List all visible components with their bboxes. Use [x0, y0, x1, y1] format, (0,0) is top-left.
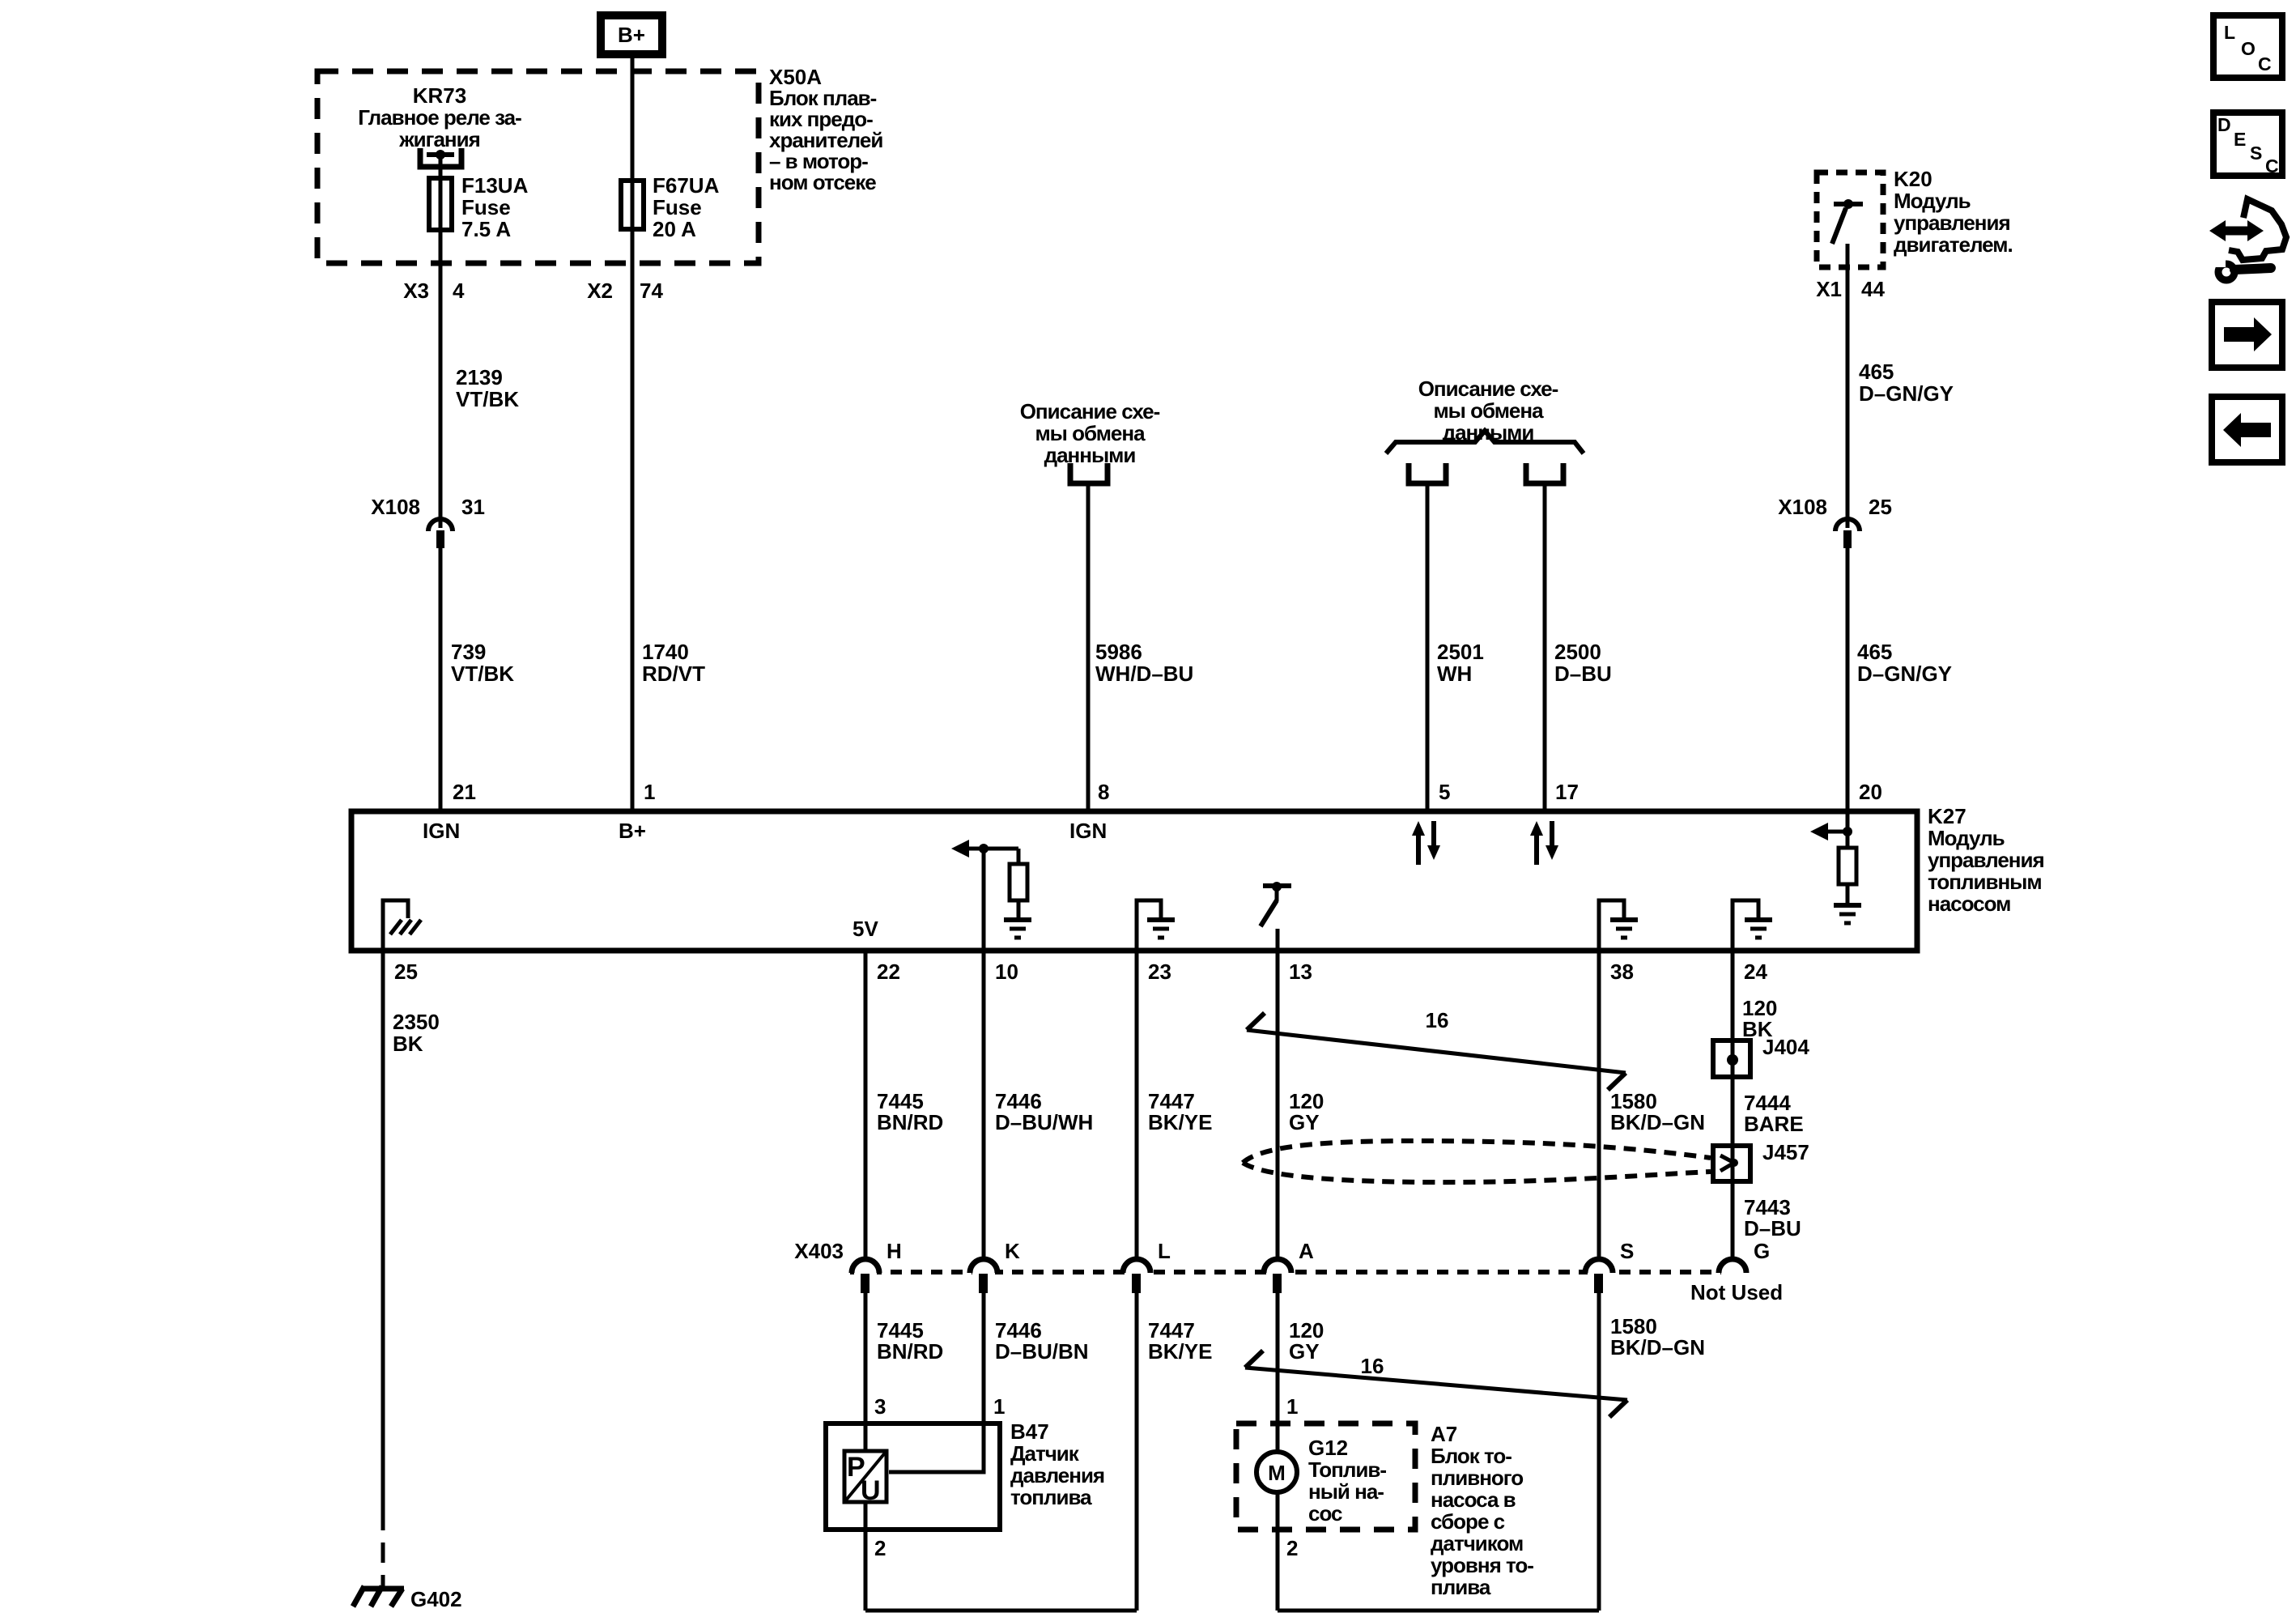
svg-text:S: S — [1620, 1239, 1634, 1263]
svg-text:F13UA: F13UA — [461, 173, 529, 198]
svg-text:16: 16 — [1426, 1008, 1449, 1032]
svg-text:25: 25 — [394, 960, 418, 984]
svg-text:GY: GY — [1289, 1339, 1320, 1364]
svg-text:мы обмена: мы обмена — [1035, 421, 1146, 445]
svg-text:уровня то-: уровня то- — [1431, 1553, 1533, 1577]
svg-text:465: 465 — [1857, 640, 1892, 664]
svg-text:BK/D–GN: BK/D–GN — [1610, 1110, 1705, 1134]
svg-text:1740: 1740 — [642, 640, 689, 664]
svg-text:данными: данными — [1044, 443, 1136, 467]
svg-text:X2: X2 — [587, 279, 613, 303]
svg-text:31: 31 — [461, 495, 485, 519]
svg-text:J404: J404 — [1762, 1035, 1809, 1059]
svg-text:Топлив-: Топлив- — [1308, 1457, 1386, 1482]
svg-text:44: 44 — [1861, 277, 1885, 301]
svg-text:давления: давления — [1010, 1463, 1104, 1487]
svg-text:сборе с: сборе с — [1431, 1509, 1505, 1534]
svg-text:O: O — [2241, 38, 2256, 59]
svg-text:J457: J457 — [1762, 1140, 1809, 1164]
svg-text:38: 38 — [1610, 960, 1634, 984]
svg-text:топлива: топлива — [1010, 1485, 1092, 1509]
svg-text:25: 25 — [1869, 495, 1892, 519]
svg-text:A7: A7 — [1431, 1422, 1457, 1446]
svg-text:L: L — [2224, 22, 2235, 43]
svg-text:5V: 5V — [852, 917, 878, 941]
svg-text:данными: данными — [1443, 420, 1534, 445]
svg-text:X3: X3 — [403, 279, 429, 303]
svg-text:13: 13 — [1289, 960, 1312, 984]
svg-text:KR73: KR73 — [413, 83, 466, 108]
svg-text:A: A — [1299, 1239, 1314, 1263]
svg-text:2350: 2350 — [393, 1010, 440, 1034]
svg-text:C: C — [2265, 155, 2279, 177]
svg-text:2139: 2139 — [456, 365, 503, 389]
svg-text:1: 1 — [1286, 1394, 1298, 1419]
svg-text:K: K — [1005, 1239, 1020, 1263]
svg-text:BK: BK — [393, 1032, 423, 1056]
svg-text:D–GN/GY: D–GN/GY — [1857, 662, 1952, 686]
svg-text:D–BU/BN: D–BU/BN — [995, 1339, 1089, 1364]
svg-text:BK/YE: BK/YE — [1148, 1110, 1212, 1134]
svg-text:ный на-: ный на- — [1308, 1479, 1384, 1504]
svg-text:BK/YE: BK/YE — [1148, 1339, 1212, 1364]
svg-text:управления: управления — [1894, 211, 2010, 235]
svg-text:X108: X108 — [1778, 495, 1827, 519]
svg-text:G12: G12 — [1308, 1436, 1348, 1460]
svg-text:U: U — [861, 1475, 881, 1506]
svg-text:VT/BK: VT/BK — [451, 662, 514, 686]
svg-text:S: S — [2250, 143, 2262, 164]
svg-text:насоса в: насоса в — [1431, 1487, 1516, 1512]
svg-text:1: 1 — [993, 1394, 1005, 1419]
svg-text:IGN: IGN — [423, 819, 460, 843]
svg-text:B+: B+ — [619, 819, 646, 843]
svg-text:управления: управления — [1928, 848, 2044, 872]
svg-text:RD/VT: RD/VT — [642, 662, 705, 686]
svg-text:WH/D–BU: WH/D–BU — [1095, 662, 1193, 686]
svg-text:WH: WH — [1437, 662, 1472, 686]
svg-text:2: 2 — [874, 1536, 886, 1560]
svg-text:E: E — [2234, 129, 2246, 150]
svg-text:L: L — [1158, 1239, 1171, 1263]
svg-text:VT/BK: VT/BK — [456, 387, 519, 411]
svg-text:3: 3 — [874, 1394, 886, 1419]
svg-text:5: 5 — [1439, 780, 1450, 804]
svg-text:22: 22 — [877, 960, 900, 984]
svg-text:Модуль: Модуль — [1928, 826, 2005, 850]
svg-text:D: D — [2217, 114, 2231, 135]
svg-text:BN/RD: BN/RD — [877, 1110, 943, 1134]
svg-text:BK/D–GN: BK/D–GN — [1610, 1335, 1705, 1360]
svg-text:двигателем.: двигателем. — [1894, 232, 2013, 257]
svg-text:2501: 2501 — [1437, 640, 1484, 664]
svg-text:жигания: жигания — [398, 127, 480, 151]
svg-text:IGN: IGN — [1069, 819, 1107, 843]
svg-text:H: H — [887, 1239, 902, 1263]
svg-text:10: 10 — [995, 960, 1018, 984]
svg-text:K27: K27 — [1928, 804, 1966, 828]
svg-text:17: 17 — [1555, 780, 1579, 804]
svg-text:Описание схе-: Описание схе- — [1020, 399, 1160, 423]
svg-text:D–BU/WH: D–BU/WH — [995, 1110, 1093, 1134]
svg-text:Модуль: Модуль — [1894, 189, 1971, 213]
svg-text:D–BU: D–BU — [1554, 662, 1612, 686]
svg-text:Not Used: Not Used — [1690, 1280, 1783, 1304]
svg-text:74: 74 — [640, 279, 663, 303]
svg-text:X108: X108 — [371, 495, 420, 519]
svg-text:BARE: BARE — [1744, 1112, 1804, 1136]
svg-text:X403: X403 — [794, 1239, 844, 1263]
svg-text:G402: G402 — [410, 1587, 462, 1611]
svg-text:датчиком: датчиком — [1431, 1531, 1523, 1555]
svg-text:BN/RD: BN/RD — [877, 1339, 943, 1364]
svg-text:21: 21 — [453, 780, 476, 804]
svg-text:23: 23 — [1148, 960, 1171, 984]
svg-text:X1: X1 — [1816, 277, 1842, 301]
svg-text:ном отсеке: ном отсеке — [769, 170, 876, 194]
svg-text:Блок то-: Блок то- — [1431, 1444, 1512, 1468]
svg-text:плива: плива — [1431, 1575, 1491, 1599]
svg-text:сос: сос — [1308, 1501, 1342, 1526]
svg-text:20 A: 20 A — [653, 217, 696, 241]
svg-text:D–BU: D–BU — [1744, 1216, 1801, 1240]
svg-text:24: 24 — [1744, 960, 1767, 984]
svg-text:7.5 A: 7.5 A — [461, 217, 511, 241]
svg-text:K20: K20 — [1894, 167, 1932, 191]
svg-text:GY: GY — [1289, 1110, 1320, 1134]
svg-text:465: 465 — [1859, 360, 1894, 384]
svg-text:2500: 2500 — [1554, 640, 1601, 664]
svg-text:Описание схе-: Описание схе- — [1418, 377, 1558, 401]
svg-text:1: 1 — [644, 780, 655, 804]
svg-text:4: 4 — [453, 279, 465, 303]
svg-text:C: C — [2258, 53, 2272, 74]
svg-text:Главное реле за-: Главное реле за- — [358, 105, 521, 130]
svg-text:M: M — [1268, 1461, 1286, 1485]
svg-text:D–GN/GY: D–GN/GY — [1859, 381, 1954, 406]
svg-text:2: 2 — [1286, 1536, 1298, 1560]
svg-text:пливного: пливного — [1431, 1466, 1523, 1490]
svg-text:Fuse: Fuse — [653, 195, 702, 219]
svg-text:5986: 5986 — [1095, 640, 1142, 664]
svg-text:G: G — [1754, 1239, 1770, 1263]
svg-text:B+: B+ — [618, 23, 645, 47]
svg-text:20: 20 — [1859, 780, 1882, 804]
svg-text:739: 739 — [451, 640, 486, 664]
svg-text:Fuse: Fuse — [461, 195, 511, 219]
svg-text:Датчик: Датчик — [1010, 1441, 1080, 1466]
svg-text:B47: B47 — [1010, 1419, 1049, 1444]
svg-text:F67UA: F67UA — [653, 173, 720, 198]
svg-text:мы обмена: мы обмена — [1433, 398, 1544, 423]
svg-text:8: 8 — [1098, 780, 1109, 804]
svg-text:насосом: насосом — [1928, 891, 2010, 916]
svg-text:топливным: топливным — [1928, 870, 2042, 894]
svg-text:16: 16 — [1361, 1354, 1384, 1378]
